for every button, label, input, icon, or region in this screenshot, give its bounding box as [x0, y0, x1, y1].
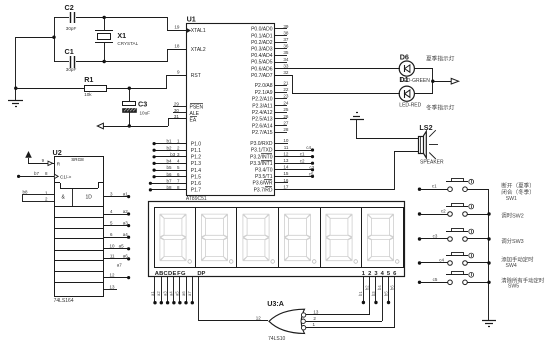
svg-text:P1.0: P1.0	[191, 141, 202, 147]
wire U2 pin 3 output	[103, 191, 130, 198]
svg-text:RST: RST	[191, 73, 201, 79]
U1 pin P2.4/A12 stub pin 25	[252, 107, 289, 116]
wire net b7 to U2 pin 8 (clock)	[17, 171, 54, 178]
U1 pin P2.6/A14 stub pin 27	[252, 121, 289, 130]
svg-text:P1.5: P1.5	[191, 174, 202, 180]
svg-text:D6: D6	[400, 52, 409, 61]
svg-text:b2: b2	[166, 145, 172, 150]
U1 pin P0.0/AD0 stub pin 39	[251, 24, 289, 33]
svg-text:14: 14	[283, 165, 289, 170]
svg-text:b6: b6	[390, 285, 395, 290]
wire U2 pin 12 output	[103, 272, 130, 279]
svg-text:冬季指示灯: 冬季指示灯	[426, 104, 455, 112]
wire P0.6 pin33 to D6	[275, 68, 400, 70]
svg-text:a2: a2	[156, 291, 161, 296]
U1 pin EA	[174, 114, 197, 123]
svg-text:36: 36	[283, 44, 289, 49]
svg-text:25: 25	[283, 107, 289, 112]
display digit numbers 123456	[362, 271, 397, 277]
svg-text:P3.0/RXD: P3.0/RXD	[250, 141, 273, 147]
U1 pin P3.2 pin 12	[250, 151, 289, 160]
svg-text:P1.4: P1.4	[191, 168, 202, 174]
svg-text:23: 23	[283, 94, 289, 99]
svg-text:P3.4/T0: P3.4/T0	[255, 168, 273, 174]
node bus junction	[487, 261, 490, 264]
wire net b2 to U1 P1.1 pin 2	[153, 145, 202, 154]
display digit area frame	[155, 208, 404, 268]
display digit cell 3	[243, 214, 275, 263]
svg-text:39: 39	[283, 24, 289, 29]
svg-text:b1: b1	[166, 139, 172, 144]
svg-text:c4: c4	[439, 258, 444, 263]
svg-text:74LS164: 74LS164	[54, 298, 74, 304]
svg-text:21: 21	[283, 80, 289, 85]
svg-text:33: 33	[283, 63, 289, 68]
svg-text:调分SW3: 调分SW3	[501, 237, 523, 245]
wire display segment pin E net a5	[175, 276, 182, 304]
ground (switch bus)	[482, 321, 496, 327]
svg-text:P3.6/WR: P3.6/WR	[252, 181, 272, 187]
U1 pin P3.6 pin 16	[252, 178, 288, 187]
svg-text:b3: b3	[371, 291, 376, 296]
svg-text:b3: b3	[170, 152, 176, 157]
display digit cell 6	[367, 214, 399, 263]
svg-text:P1.3: P1.3	[191, 161, 202, 167]
U1 pin XTAL1 name + entry arrow	[187, 28, 206, 34]
switch SW5 net c5	[418, 272, 489, 285]
svg-text:c1: c1	[432, 184, 437, 189]
svg-text:断开（夏季）: 断开（夏季）	[501, 182, 535, 190]
U1 pin P0.2/AD2 stub pin 37	[251, 37, 289, 46]
wire XTAL2 net	[104, 49, 186, 62]
node bus junction	[487, 281, 490, 284]
U1 pin P3.1 pin 11	[251, 145, 289, 154]
svg-text:a2: a2	[123, 209, 129, 214]
display digit cell 1	[160, 214, 192, 263]
svg-text:P0.5/AD5: P0.5/AD5	[251, 60, 273, 66]
wire display segment pin C net a3	[162, 276, 169, 304]
wire display segment pin B net a2	[156, 276, 163, 304]
svg-text:a5: a5	[119, 244, 125, 249]
svg-text:ALE: ALE	[190, 111, 200, 117]
U1 pin P0.7/AD7 stub pin 32	[251, 70, 289, 79]
svg-text:10k: 10k	[84, 92, 92, 97]
wire display digit pin 1	[358, 276, 365, 304]
svg-text:c3: c3	[433, 234, 438, 239]
U1 pin ALE stub	[173, 108, 200, 117]
svg-text:22: 22	[283, 87, 289, 92]
svg-text:P2.3/A11: P2.3/A11	[252, 103, 272, 109]
wire display segment pin A net a1	[150, 276, 157, 304]
node ground junction	[14, 87, 17, 90]
capacitor C3 (electrolytic)	[123, 88, 151, 126]
svg-text:闭合（冬季）: 闭合（冬季）	[501, 188, 535, 196]
wire net b5 to U1 P1.4 pin 5	[153, 165, 202, 174]
svg-text:a3: a3	[123, 220, 129, 225]
wire net b6 to U1 P1.5 pin 6	[153, 172, 202, 181]
wire ground to speaker top	[356, 138, 419, 140]
svg-text:P0.0/AD0: P0.0/AD0	[251, 27, 273, 33]
node LED common junction	[431, 80, 434, 83]
svg-text:b8: b8	[166, 185, 172, 190]
svg-text:U1: U1	[187, 15, 196, 24]
svg-text:a6: a6	[181, 291, 186, 296]
capacitor C1	[54, 47, 104, 72]
U1 pin P2.3/A11 stub pin 24	[252, 100, 289, 109]
svg-text:P1.1: P1.1	[191, 148, 202, 154]
svg-text:P0.1/AD1: P0.1/AD1	[251, 33, 273, 39]
svg-text:C2: C2	[65, 3, 74, 12]
svg-text:G: G	[181, 271, 186, 277]
svg-text:CRYSTAL: CRYSTAL	[117, 41, 138, 46]
switch SW2 net c2	[418, 204, 489, 217]
LED D1 (red)	[399, 75, 421, 109]
svg-text:P2.2/A10: P2.2/A10	[252, 97, 273, 103]
svg-text:LED-RED: LED-RED	[399, 103, 421, 109]
op-amp U1 AT89C51 microcontroller body	[186, 15, 275, 203]
svg-text:P2.1/A9: P2.1/A9	[255, 90, 273, 96]
svg-text:P1.2: P1.2	[191, 155, 202, 161]
display segment letters	[155, 271, 206, 277]
U1 pin P2.5/A13 stub pin 26	[252, 114, 289, 123]
svg-text:C1: C1	[65, 47, 74, 56]
svg-text:a1: a1	[123, 191, 129, 196]
U1 pin P3.0 pin 10	[250, 138, 289, 147]
svg-text:X1: X1	[117, 31, 126, 40]
shift register U2 74LS164 body	[53, 148, 104, 304]
svg-text:P3.2/INT0: P3.2/INT0	[250, 154, 273, 160]
svg-text:10: 10	[109, 244, 115, 249]
wire EA net with left arrow terminal	[97, 119, 186, 129]
svg-text:30: 30	[174, 108, 180, 113]
svg-text:SRG8: SRG8	[71, 157, 84, 162]
wire display digit pin 4	[306, 276, 383, 322]
node C3 top junction	[128, 87, 131, 90]
U1 pin 16 stub	[275, 182, 288, 184]
svg-text:C1/->: C1/->	[60, 175, 72, 180]
svg-text:15: 15	[283, 171, 289, 176]
U1 pin P0.6/AD6 stub pin 33	[251, 63, 289, 72]
U1 pin P3.3 pin 13	[250, 158, 289, 167]
wire P0.7 pin32 to D1	[275, 75, 400, 94]
wire net c5 from U1	[275, 172, 314, 178]
node bus junction	[487, 212, 490, 215]
switch captions	[501, 182, 545, 290]
svg-text:19: 19	[174, 25, 180, 30]
svg-text:SW5: SW5	[508, 283, 519, 289]
svg-text:SW4: SW4	[506, 263, 517, 269]
node C3 bottom junction	[128, 124, 131, 127]
svg-text:P3.7/RD: P3.7/RD	[254, 187, 273, 193]
wire LED common with right arrow	[414, 69, 459, 95]
svg-text:a3: a3	[162, 291, 167, 296]
U1 pin P3.7 pin 17	[254, 184, 289, 193]
wire net b7 to U1 P1.6 pin 7	[149, 178, 202, 187]
svg-text:P2.0/A8: P2.0/A8	[255, 83, 273, 89]
svg-text:P0.7/AD7: P0.7/AD7	[251, 73, 273, 79]
svg-text:P2.5/A13: P2.5/A13	[252, 117, 273, 123]
display digit cell 2	[201, 214, 233, 263]
svg-text:PSEN: PSEN	[190, 104, 204, 110]
svg-text:a4: a4	[123, 232, 129, 237]
svg-text:10uF: 10uF	[140, 110, 151, 115]
svg-text:c1: c1	[300, 152, 305, 157]
power arrow (U2 reset pull-up)	[25, 151, 32, 163]
wire display digit pin 3	[371, 276, 378, 304]
wire display DP pin to U3:A output	[199, 276, 269, 321]
svg-text:b1: b1	[358, 291, 363, 296]
svg-text:SW1: SW1	[506, 196, 517, 202]
U1 pin 10 stub	[275, 143, 288, 145]
node caps-left junction	[52, 36, 55, 39]
svg-text:P2.4/A12: P2.4/A12	[252, 110, 273, 116]
display digit cell 4	[284, 214, 316, 263]
svg-text:D: D	[168, 271, 172, 277]
crystal X1	[95, 17, 139, 62]
U1 pin P2.2/A10 stub pin 23	[252, 94, 289, 103]
wire XTAL1 net	[104, 17, 186, 31]
node: crystal top junction	[103, 16, 106, 19]
svg-text:26: 26	[283, 114, 289, 119]
U1 pin P3.4 pin 14	[255, 165, 289, 174]
svg-text:XTAL1: XTAL1	[191, 28, 206, 34]
node: crystal bottom junction	[103, 60, 106, 63]
wire display segment pin D net a4	[169, 276, 176, 304]
svg-text:c4: c4	[306, 145, 311, 150]
svg-text:74LS10: 74LS10	[268, 336, 285, 342]
svg-text:b7: b7	[34, 171, 40, 176]
svg-text:P3.1/TXD: P3.1/TXD	[251, 148, 273, 154]
svg-text:32: 32	[283, 70, 289, 75]
svg-text:13: 13	[283, 158, 289, 163]
U1 pin P2.0/A8 stub pin 21	[255, 80, 289, 89]
U1 pin P0.3/AD3 stub pin 36	[251, 44, 289, 53]
svg-text:a7: a7	[187, 291, 192, 296]
svg-text:13: 13	[109, 284, 115, 289]
wire U2 pin 11 output	[103, 254, 130, 261]
capacitor C2	[54, 3, 104, 31]
svg-text:12: 12	[283, 151, 289, 156]
svg-text:LS2: LS2	[419, 123, 432, 132]
svg-text:U2: U2	[53, 148, 62, 157]
switch SW1 net c1	[418, 179, 489, 192]
svg-text:c5: c5	[309, 172, 314, 177]
svg-text:29: 29	[174, 101, 180, 106]
wire U2 pin 6 output	[103, 232, 130, 239]
svg-text:EA: EA	[190, 117, 197, 123]
svg-text:9: 9	[177, 69, 180, 74]
svg-text:b2: b2	[365, 285, 370, 290]
wire caps left leg	[16, 17, 55, 100]
svg-text:P0.4/AD4: P0.4/AD4	[251, 53, 273, 59]
svg-text:12: 12	[109, 272, 115, 277]
svg-text:35: 35	[283, 50, 289, 55]
U1 pin P0.5/AD5 stub pin 34	[251, 57, 289, 66]
display digit cell 5	[326, 214, 358, 263]
svg-text:30pF: 30pF	[66, 26, 77, 31]
svg-text:13: 13	[313, 310, 319, 315]
resistor R1	[16, 75, 167, 97]
svg-text:c2: c2	[300, 158, 305, 163]
svg-text:b5: b5	[166, 165, 172, 170]
LED D6 (green)	[399, 52, 430, 83]
svg-text:12: 12	[256, 315, 262, 320]
svg-text:1D: 1D	[86, 195, 93, 201]
svg-text:27: 27	[283, 121, 289, 126]
op-amp U3:A 74LS10 NAND gate (DeMorgan form)	[267, 299, 319, 342]
svg-text:a4: a4	[169, 291, 174, 296]
svg-text:a1: a1	[150, 291, 155, 296]
node bus junction	[487, 237, 490, 240]
wire net c4 from U1	[275, 145, 314, 151]
wire net b1 to U1 P1.0 pin 1	[153, 139, 202, 148]
svg-text:b5: b5	[383, 291, 388, 296]
svg-text:P2.6/A14: P2.6/A14	[252, 123, 273, 129]
wire display segment pin G net a7	[187, 276, 194, 304]
svg-text:P1.7: P1.7	[191, 188, 202, 194]
wire display digit pin 2	[306, 276, 370, 315]
svg-text:调时SW2: 调时SW2	[501, 211, 523, 219]
svg-text:R1: R1	[84, 75, 93, 84]
svg-text:a6: a6	[123, 254, 129, 259]
wire display digit pin 6	[306, 276, 395, 328]
wire net c3 from U1	[275, 165, 315, 172]
wire U2 pin 13 output	[103, 284, 117, 289]
6-digit seven-segment display outer box	[149, 202, 405, 277]
ground (inverted, above speaker)	[350, 113, 364, 139]
svg-text:P1.6: P1.6	[191, 181, 202, 187]
svg-text:c2: c2	[441, 209, 446, 214]
svg-text:a7: a7	[117, 262, 123, 267]
svg-text:28: 28	[283, 127, 289, 132]
svg-text:30pF: 30pF	[66, 67, 77, 72]
wire net b4 to U1 P1.3 pin 4	[153, 159, 202, 168]
svg-text:P2.7/A15: P2.7/A15	[252, 130, 273, 136]
svg-text:18: 18	[174, 44, 180, 49]
wire net b8 to U1 P1.7 pin 8	[149, 185, 202, 194]
U1 pin P3.5 pin 15	[255, 171, 289, 180]
svg-text:37: 37	[283, 37, 289, 42]
svg-text:P3.3/INT1: P3.3/INT1	[250, 161, 273, 167]
U1 pin P2.7/A15 stub pin 28	[252, 127, 289, 136]
svg-text:P0.2/AD2: P0.2/AD2	[251, 40, 273, 46]
wire U2 pin 4 output	[103, 209, 130, 216]
svg-text:38: 38	[283, 30, 289, 35]
svg-text:11: 11	[110, 254, 115, 259]
U1 pin P2.1/A9 stub pin 22	[255, 87, 289, 96]
svg-text:17: 17	[283, 184, 289, 189]
wire U1 pin17 P3.7/RD to speaker	[275, 151, 419, 190]
svg-text:24: 24	[283, 100, 289, 105]
wire RST net	[167, 75, 187, 88]
svg-text:c3: c3	[309, 165, 314, 170]
speaker LS2	[419, 123, 445, 166]
wire display segment pin F net a6	[181, 276, 188, 304]
svg-text:b4: b4	[377, 285, 382, 290]
U1 pin P0.4/AD4 stub pin 35	[251, 50, 289, 59]
svg-text:31: 31	[174, 114, 180, 119]
wire U2 pin 10 output	[103, 244, 130, 251]
switch SW4 net c4	[418, 253, 489, 266]
switch SW3 net c3	[418, 229, 489, 242]
wire net b8 loop to U2 pins 1,2	[23, 189, 55, 201]
svg-text:DP: DP	[197, 271, 205, 277]
svg-text:34: 34	[283, 57, 289, 62]
svg-text:b8: b8	[23, 189, 29, 194]
wire net c1 from U1	[275, 152, 314, 159]
svg-text:夏季指示灯: 夏季指示灯	[426, 54, 455, 62]
svg-text:10: 10	[283, 138, 289, 143]
U1 pin PSEN stub	[173, 101, 204, 110]
svg-text:SPEAKER: SPEAKER	[420, 159, 444, 165]
svg-text:C3: C3	[138, 100, 147, 109]
wire net b3 to U1 P1.2 pin 3	[153, 152, 202, 161]
svg-text:c5: c5	[433, 277, 438, 282]
ground (left)	[8, 101, 23, 107]
svg-text:b4: b4	[166, 159, 172, 164]
U1 pin P0.1/AD1 stub pin 38	[251, 30, 289, 39]
svg-text:E: E	[173, 271, 177, 277]
wire net c2 from U1	[275, 158, 314, 164]
wire to U2 pin 9 (R)	[28, 158, 54, 166]
svg-text:11: 11	[284, 145, 289, 150]
svg-text:b6: b6	[166, 172, 172, 177]
svg-text:a5: a5	[175, 291, 180, 296]
svg-text:D1: D1	[399, 75, 408, 84]
svg-text:XTAL2: XTAL2	[191, 47, 206, 53]
svg-text:P0.3/AD3: P0.3/AD3	[251, 47, 273, 53]
wire display digit pin 5	[383, 276, 390, 304]
svg-text:U3:A: U3:A	[267, 299, 284, 308]
wire U2 pin 5 output	[103, 220, 130, 227]
svg-text:P0.6/AD6: P0.6/AD6	[251, 66, 273, 72]
wire switch common bus	[488, 189, 490, 320]
svg-text:b7: b7	[166, 178, 172, 183]
